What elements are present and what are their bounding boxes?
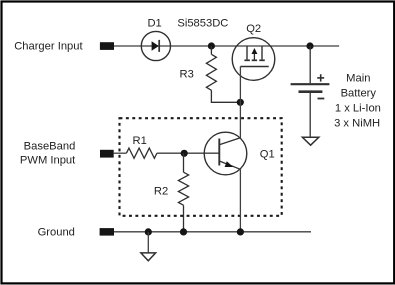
svg-text:Charger Input: Charger Input bbox=[14, 41, 83, 53]
terminal Charger Input bbox=[100, 42, 114, 50]
resistor R3 bbox=[206, 46, 240, 102]
svg-text:Q2: Q2 bbox=[246, 23, 261, 35]
wire Q2 gate to Q1 collector bbox=[239, 67, 241, 138]
diode D1 bbox=[141, 31, 170, 60]
wire top rail bbox=[114, 45, 339, 47]
junction battery bbox=[306, 42, 313, 49]
ground battery bbox=[302, 137, 318, 145]
junction R3 / Q2 gate bbox=[237, 99, 244, 106]
terminal BaseBand PWM Input bbox=[100, 150, 114, 158]
ground symbol bbox=[141, 232, 156, 261]
svg-text:R1: R1 bbox=[133, 135, 147, 147]
svg-text:Main: Main bbox=[346, 73, 370, 85]
junction Q1 emitter ground bbox=[237, 228, 244, 235]
svg-text:1 x Li-Ion: 1 x Li-Ion bbox=[335, 102, 381, 114]
resistor R1 bbox=[126, 148, 156, 158]
wire Q1 emitter to ground rail bbox=[239, 169, 241, 232]
wire ground rail bbox=[114, 231, 311, 233]
svg-text:R3: R3 bbox=[180, 69, 194, 81]
svg-text:BaseBand: BaseBand bbox=[24, 140, 76, 152]
svg-text:R2: R2 bbox=[154, 186, 168, 198]
junction R2 ground bbox=[180, 228, 187, 235]
resistor R2 bbox=[178, 153, 188, 232]
terminal Ground bbox=[100, 228, 114, 236]
svg-text:Q1: Q1 bbox=[260, 148, 275, 160]
svg-text:Si5853DC: Si5853DC bbox=[177, 17, 228, 29]
junction ground stub bbox=[145, 228, 152, 235]
dashed enclosure (control block) bbox=[120, 118, 282, 216]
junction R1/R2 bbox=[181, 150, 188, 157]
battery B1 bbox=[291, 46, 330, 137]
svg-text:D1: D1 bbox=[147, 17, 161, 29]
svg-text:Battery: Battery bbox=[341, 88, 377, 100]
svg-text:PWM Input: PWM Input bbox=[20, 155, 76, 167]
wire terminal to R1 bbox=[114, 152, 127, 154]
transistor Q2 (P-MOSFET Si5853DC) bbox=[232, 38, 275, 81]
svg-text:Ground: Ground bbox=[38, 226, 75, 238]
wire R1 to Q1 base bbox=[157, 152, 219, 154]
junction R3 top bbox=[208, 42, 215, 49]
svg-text:3 x NiMH: 3 x NiMH bbox=[334, 118, 380, 130]
label Main Battery bbox=[334, 73, 381, 130]
transistor Q1 (NPN) bbox=[204, 132, 247, 175]
